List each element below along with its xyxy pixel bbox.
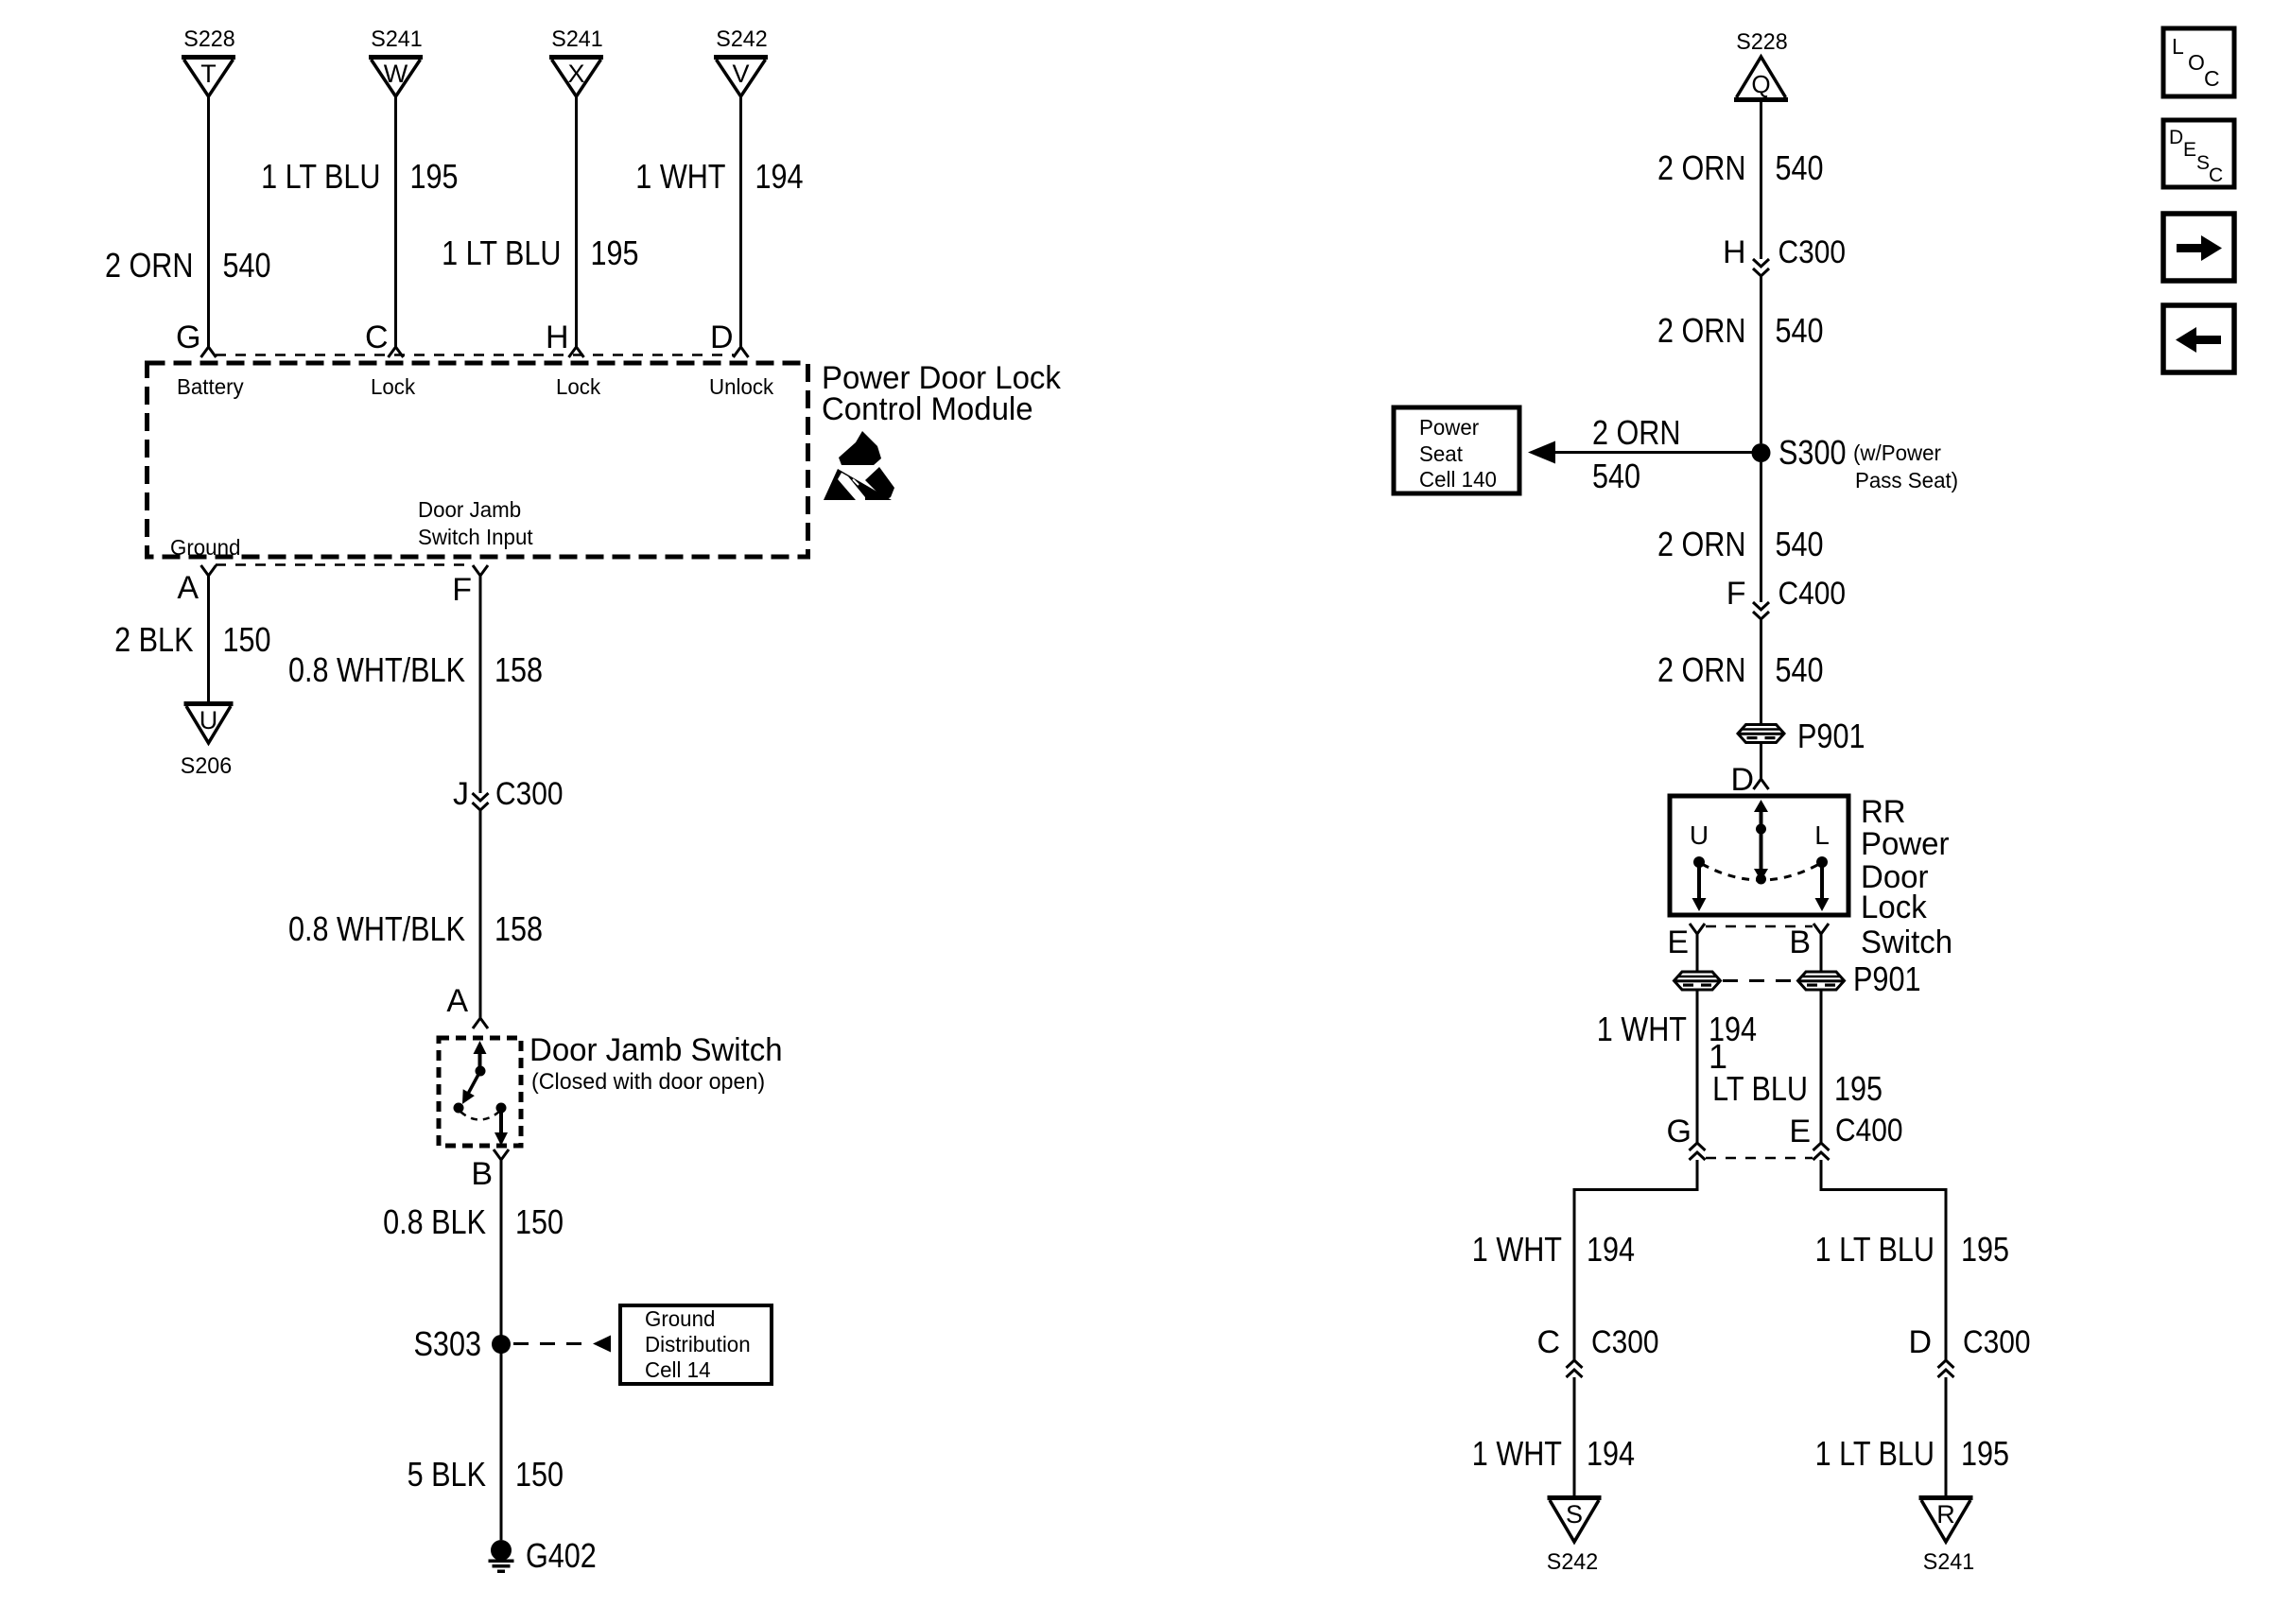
svg-text:(Closed with door open): (Closed with door open) [531,1069,765,1095]
svg-text:T: T [200,60,217,88]
svg-text:S228: S228 [183,26,234,52]
svg-text:150: 150 [515,1455,564,1494]
svg-text:C400: C400 [1835,1113,1903,1149]
svg-text:C: C [2209,164,2223,186]
svg-text:2 ORN: 2 ORN [1657,148,1746,187]
svg-text:195: 195 [1834,1069,1883,1108]
svg-text:E: E [2183,139,2196,161]
svg-text:Switch Input: Switch Input [418,525,533,549]
svg-text:195: 195 [1961,1230,2009,1269]
svg-text:R: R [1936,1500,1955,1529]
svg-text:Seat: Seat [1419,441,1463,466]
svg-text:0.8 WHT/BLK: 0.8 WHT/BLK [288,650,465,689]
svg-text:S241: S241 [551,26,602,52]
svg-text:F: F [1726,576,1746,612]
svg-text:540: 540 [1592,457,1640,495]
svg-text:194: 194 [1587,1230,1635,1269]
svg-text:E: E [1789,1114,1811,1149]
svg-text:Pass Seat): Pass Seat) [1855,468,1958,492]
svg-text:158: 158 [495,650,543,689]
svg-text:195: 195 [1961,1434,2009,1473]
svg-text:D: D [1730,762,1754,798]
svg-text:S206: S206 [181,753,232,779]
svg-text:540: 540 [223,246,271,285]
svg-text:Lock: Lock [1861,890,1928,925]
svg-text:0.8 WHT/BLK: 0.8 WHT/BLK [288,909,465,948]
svg-text:Ground: Ground [170,535,240,560]
svg-text:Lock: Lock [556,374,601,399]
svg-text:U: U [1690,821,1709,850]
svg-text:S: S [1566,1500,1583,1529]
svg-text:A: A [177,570,199,606]
svg-text:194: 194 [755,157,804,196]
svg-text:U: U [200,706,218,734]
svg-text:E: E [1667,924,1689,960]
svg-text:RR: RR [1861,794,1906,830]
svg-text:C300: C300 [1778,234,1847,270]
svg-text:D: D [1908,1324,1932,1360]
svg-text:150: 150 [515,1202,564,1241]
svg-text:195: 195 [410,157,459,196]
svg-text:C300: C300 [1591,1324,1659,1360]
svg-text:1 WHT: 1 WHT [1472,1434,1562,1473]
svg-text:F: F [452,572,472,608]
svg-text:Cell 140: Cell 140 [1419,467,1497,492]
svg-text:2 BLK: 2 BLK [114,620,193,659]
svg-text:S241: S241 [1923,1549,1974,1575]
svg-text:Door Jamb: Door Jamb [418,497,521,522]
svg-text:158: 158 [495,909,543,948]
svg-text:A: A [446,983,468,1019]
svg-text:L: L [2172,34,2184,59]
svg-text:1 WHT: 1 WHT [1597,1010,1687,1048]
svg-text:540: 540 [1776,525,1824,563]
svg-text:S242: S242 [716,26,767,52]
svg-text:Cell 14: Cell 14 [645,1357,711,1382]
svg-text:C300: C300 [1963,1324,2031,1360]
svg-text:2 ORN: 2 ORN [1657,650,1746,689]
svg-text:2 ORN: 2 ORN [1657,525,1746,563]
svg-text:L: L [1814,821,1830,850]
svg-text:J: J [453,776,469,812]
svg-text:O: O [2188,50,2205,75]
svg-text:S228: S228 [1736,29,1787,55]
svg-text:0.8 BLK: 0.8 BLK [383,1202,486,1241]
svg-text:(w/Power: (w/Power [1853,441,1941,465]
svg-text:1 LT BLU: 1 LT BLU [261,157,380,196]
svg-text:Unlock: Unlock [709,374,774,399]
svg-text:Lock: Lock [371,374,416,399]
svg-text:150: 150 [223,620,271,659]
svg-text:C: C [1536,1324,1560,1360]
svg-text:C400: C400 [1778,576,1847,612]
svg-text:2 ORN: 2 ORN [1657,311,1746,350]
svg-text:5 BLK: 5 BLK [408,1455,486,1494]
svg-text:B: B [471,1156,493,1192]
svg-text:540: 540 [1776,650,1824,689]
svg-text:D: D [2169,127,2183,148]
svg-text:B: B [1789,924,1811,960]
svg-text:P901: P901 [1853,959,1921,998]
svg-text:Door Jamb Switch: Door Jamb Switch [529,1032,783,1068]
svg-text:G402: G402 [526,1536,597,1575]
svg-text:2 ORN: 2 ORN [1592,413,1681,452]
svg-text:1 LT BLU: 1 LT BLU [442,233,561,272]
svg-text:Switch: Switch [1861,924,1952,960]
svg-text:X: X [567,60,584,88]
svg-text:C: C [365,320,389,355]
svg-text:540: 540 [1776,311,1824,350]
svg-text:194: 194 [1587,1434,1635,1473]
svg-text:540: 540 [1776,148,1824,187]
svg-text:Distribution: Distribution [645,1332,751,1356]
svg-text:Battery: Battery [177,374,244,399]
svg-text:Ground: Ground [645,1306,715,1331]
svg-text:Q: Q [1751,70,1770,98]
svg-text:2 ORN: 2 ORN [105,246,194,285]
svg-text:1 LT BLU: 1 LT BLU [1815,1230,1935,1269]
svg-text:G: G [1667,1114,1692,1149]
svg-text:D: D [710,320,734,355]
svg-text:195: 195 [591,233,639,272]
svg-text:C: C [2204,66,2220,91]
svg-text:C300: C300 [495,776,564,812]
svg-text:S: S [2196,152,2210,174]
svg-text:H: H [1723,234,1746,270]
svg-text:1 LT BLU: 1 LT BLU [1815,1434,1935,1473]
svg-text:Power: Power [1861,826,1950,862]
svg-text:W: W [384,60,408,88]
svg-text:Power: Power [1419,415,1480,440]
svg-text:P901: P901 [1797,717,1865,755]
svg-text:G: G [176,320,200,355]
svg-text:S242: S242 [1547,1549,1598,1575]
svg-text:S300: S300 [1778,433,1847,472]
svg-text:1 WHT: 1 WHT [1472,1230,1562,1269]
svg-text:V: V [732,60,749,88]
svg-text:Control Module: Control Module [822,391,1033,427]
svg-text:S303: S303 [414,1324,482,1363]
svg-text:LT BLU: LT BLU [1712,1069,1808,1108]
svg-text:H: H [546,320,569,355]
svg-text:S241: S241 [371,26,422,52]
svg-text:1 WHT: 1 WHT [635,157,725,196]
